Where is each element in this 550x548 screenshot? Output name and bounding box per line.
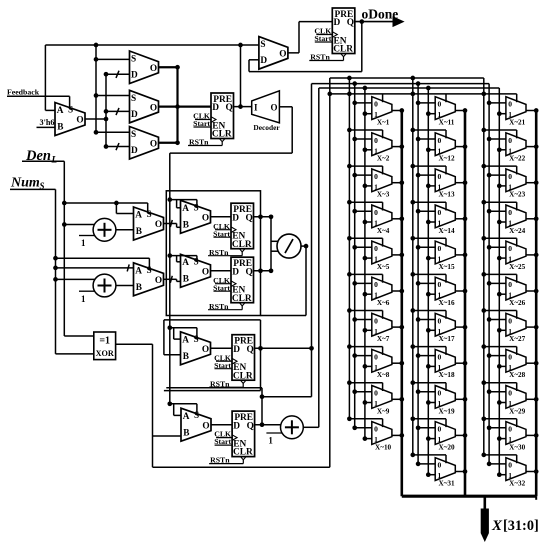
junction (309, 346, 314, 351)
junction (347, 416, 352, 421)
svg-text:X~10: X~10 (375, 443, 392, 451)
svg-text:X~20: X~20 (438, 443, 455, 451)
svg-text:O: O (150, 103, 157, 113)
mux X~23 (506, 169, 526, 199)
junction (260, 422, 265, 427)
svg-text:S: S (194, 203, 199, 213)
svg-text:0: 0 (374, 316, 378, 325)
bus column line b3 (498, 88, 500, 475)
wire X~19 output (455, 398, 465, 400)
svg-text:S: S (260, 40, 265, 50)
svg-text:S: S (147, 210, 152, 220)
junction (94, 130, 99, 135)
junction (363, 400, 368, 405)
junction (359, 19, 364, 24)
wire X~11 input 0 (418, 102, 435, 104)
junction (347, 128, 352, 133)
wire X~26 input 0 (489, 282, 506, 284)
wire X~20 input 1 (428, 438, 435, 440)
junction (167, 401, 172, 406)
junction (416, 137, 421, 142)
junction (363, 184, 368, 189)
mux X~1 (372, 97, 392, 127)
wire X~11 output (455, 110, 465, 112)
junction (534, 180, 539, 185)
module box quotient datapath (166, 191, 260, 316)
svg-text:0: 0 (438, 352, 442, 361)
junction (399, 144, 404, 149)
svg-text:X~14: X~14 (438, 227, 455, 235)
wire D input mux U2 (106, 73, 130, 75)
junction (426, 86, 431, 91)
wire X~18 select (413, 346, 446, 348)
wire X~30 output (526, 434, 536, 436)
wire select rail vertical (95, 45, 97, 132)
junction (497, 364, 502, 369)
svg-text:XOR: XOR (96, 349, 114, 358)
junction (416, 281, 421, 286)
junction (410, 128, 415, 133)
svg-text:0: 0 (508, 136, 512, 145)
junction (352, 281, 357, 286)
junction (327, 92, 332, 97)
junction (352, 317, 357, 322)
svg-text:0: 0 (374, 425, 378, 434)
junction (53, 277, 58, 282)
svg-text:1: 1 (81, 238, 86, 248)
wire U8 O to FF2 D (211, 216, 232, 218)
wire X~4 output (392, 218, 402, 220)
wire X~18 input 1 (428, 365, 435, 367)
wire X~9 input 1 (365, 402, 372, 404)
oDone arrowhead (393, 17, 403, 26)
junction (487, 173, 492, 178)
svg-text:1: 1 (81, 294, 86, 304)
wire Num vertical rail (55, 189, 57, 354)
wire X~27 output (526, 326, 536, 328)
svg-text:X~23: X~23 (509, 191, 526, 199)
wire sec2 select tap1 (170, 199, 197, 201)
junction (363, 111, 368, 116)
svg-text:0: 0 (438, 425, 442, 434)
mux X~28 (506, 349, 526, 379)
junction (347, 272, 352, 277)
wire X~32 input 0 (489, 463, 506, 465)
svg-text:D: D (131, 146, 138, 156)
svg-text:0: 0 (438, 461, 442, 470)
bus tick U9 A (127, 264, 129, 271)
junction (410, 453, 415, 458)
junction (481, 272, 486, 277)
bus run A (330, 77, 484, 79)
wire X~8 input 0 (355, 355, 372, 357)
wire U3 O (159, 105, 178, 107)
junction (258, 268, 263, 273)
wire X~12 input 1 (428, 149, 435, 151)
wire X~21 input 0 (489, 102, 506, 104)
wire X~15 input 0 (418, 246, 435, 248)
junction (363, 436, 368, 441)
junction (347, 200, 352, 205)
junction (426, 184, 431, 189)
svg-text:A: A (182, 335, 189, 345)
svg-text:Q: Q (226, 103, 233, 113)
wire FF1 Q up to select net (240, 45, 242, 107)
mux X~27 (506, 313, 526, 343)
wire X~31 output (455, 471, 465, 473)
wire Num rail (10, 188, 56, 190)
svg-text:X~13: X~13 (438, 191, 455, 199)
svg-text:0: 0 (438, 100, 442, 109)
svg-text:B: B (183, 221, 189, 231)
wire X~24 input 0 (489, 210, 506, 212)
wire X~13 input 0 (418, 174, 435, 176)
mux X~17 (435, 313, 455, 343)
wire Q feedback to U1 A (44, 45, 46, 110)
wire U12 O to FF4 D (211, 347, 233, 349)
wire X~6 input 1 (365, 293, 372, 295)
mux U8 (181, 200, 211, 233)
wire X~16 select (413, 273, 446, 275)
wire FF1 Q to decoder I (234, 106, 252, 108)
svg-text:X~31: X~31 (438, 480, 455, 488)
wire X~23 select (484, 165, 517, 167)
junction (463, 216, 468, 221)
svg-text:O: O (155, 276, 162, 286)
svg-text:0: 0 (508, 244, 512, 253)
wire X~8 select (349, 346, 382, 348)
junction (352, 209, 357, 214)
wire divider numerator stub (271, 240, 279, 242)
svg-text:D: D (233, 345, 240, 355)
svg-text:1: 1 (268, 436, 273, 446)
junction (175, 104, 180, 109)
junction (399, 216, 404, 221)
wire X~16 input 1 (428, 293, 435, 295)
wire X~10 input 0 (355, 427, 372, 429)
wire row2 A input (56, 267, 134, 269)
wire sec2 A branch1 (176, 200, 178, 208)
svg-text:X~27: X~27 (509, 335, 526, 343)
junction (269, 268, 274, 273)
junction (534, 433, 539, 438)
junction (487, 245, 492, 250)
svg-text:X~9: X~9 (377, 407, 390, 415)
junction (481, 128, 486, 133)
junction (497, 147, 502, 152)
svg-text:X: X (491, 518, 503, 534)
mux X~14 (435, 205, 455, 235)
junction (167, 325, 172, 330)
junction (487, 425, 492, 430)
wire X~30 select (484, 418, 517, 420)
junction (463, 433, 468, 438)
junction (426, 111, 431, 116)
svg-text:0: 0 (508, 208, 512, 217)
wire X~26 output (526, 290, 536, 292)
divider U11 (277, 234, 301, 258)
bus run B (312, 83, 490, 85)
junction (410, 308, 415, 313)
svg-text:X~7: X~7 (377, 335, 390, 343)
junction (399, 397, 404, 402)
junction (416, 209, 421, 214)
wire A3 out to rail2 (303, 426, 319, 428)
wire X~2 output (392, 146, 402, 148)
svg-text:0: 0 (508, 172, 512, 181)
wire FF5 Q to adder (255, 424, 281, 426)
junction (497, 328, 502, 333)
svg-text:B: B (136, 227, 142, 237)
wire X~25 select (484, 237, 517, 239)
wire X~16 input 0 (418, 282, 435, 284)
junction (481, 92, 486, 97)
junction (352, 81, 357, 86)
junction (534, 108, 539, 113)
junction (497, 292, 502, 297)
mux X~29 (506, 386, 526, 416)
junction (463, 289, 468, 294)
mux U12 (181, 332, 211, 365)
mux U5 done hold (259, 37, 288, 70)
junction (416, 101, 421, 106)
wire X~5 select (349, 237, 382, 239)
wire X~7 input 0 (355, 319, 372, 321)
mux X~24 (506, 205, 526, 235)
wire X~27 input 1 (499, 329, 506, 331)
wire sec3 B input (164, 354, 181, 356)
wire X~6 output (392, 290, 402, 292)
junction (238, 43, 243, 48)
wire X~27 input 0 (489, 319, 506, 321)
wire sec4 select tap (170, 403, 197, 405)
svg-text:0: 0 (508, 389, 512, 398)
bus end stub (535, 496, 537, 500)
wire FF5 Q to rail1 (262, 396, 312, 398)
decoder U6 (252, 91, 281, 132)
wire X~26 select (484, 273, 517, 275)
svg-text:O: O (202, 421, 209, 431)
wire sec3 select tap (170, 327, 197, 329)
junction (426, 256, 431, 261)
mux X~4 (372, 205, 392, 235)
junction (534, 469, 539, 474)
svg-text:A: A (182, 204, 189, 214)
junction (53, 266, 58, 271)
junction (487, 462, 492, 467)
junction (94, 57, 99, 62)
wire X~30 input 1 (499, 438, 506, 440)
junction (426, 292, 431, 297)
junction (463, 469, 468, 474)
junction (487, 389, 492, 394)
svg-text:0: 0 (374, 100, 378, 109)
wire X~17 input 1 (428, 329, 435, 331)
bus slash U4 D (116, 143, 119, 150)
bus column output (535, 111, 538, 497)
mux U1 feedback select (55, 103, 85, 136)
svg-text:S: S (131, 55, 136, 65)
wire X~9 output (392, 398, 402, 400)
junction (481, 164, 486, 169)
svg-text:O: O (202, 214, 209, 224)
svg-text:O: O (150, 140, 157, 150)
svg-text:S: S (68, 106, 73, 116)
module box sign datapath (164, 320, 261, 391)
svg-text:Q: Q (247, 345, 254, 355)
wire X~7 output (392, 326, 402, 328)
junction (363, 147, 368, 152)
wire main select net (45, 44, 259, 46)
mux X~7 (372, 313, 392, 343)
wire U13 O to FF5 D (211, 424, 232, 426)
flip-flop FF1 (188, 93, 234, 147)
wire X~17 output (455, 326, 465, 328)
svg-text:A: A (183, 412, 190, 422)
wire X~24 output (526, 218, 536, 220)
wire X~17 select (413, 310, 446, 312)
svg-text:D: D (334, 18, 341, 28)
wire X~25 output (526, 254, 536, 256)
svg-text:0: 0 (438, 208, 442, 217)
bus column line b1 (483, 78, 485, 455)
svg-text:X~8: X~8 (377, 371, 390, 379)
wire Den rail (22, 160, 64, 162)
svg-text:I: I (254, 103, 258, 113)
mux X~18 (435, 349, 455, 379)
svg-text:X~25: X~25 (509, 263, 526, 271)
svg-text:B: B (183, 275, 189, 285)
bus column line b1 (348, 78, 350, 419)
wire S input mux U4 (96, 131, 130, 133)
junction (410, 236, 415, 241)
junction (347, 308, 352, 313)
mux X~16 (435, 277, 455, 307)
wire X~29 output (526, 398, 536, 400)
mux X~2 (372, 133, 392, 163)
wire 3'h6 to mux B (37, 126, 56, 128)
wire X~29 input 1 (499, 402, 506, 404)
wire X~23 input 0 (489, 174, 506, 176)
junction (410, 416, 415, 421)
mux X~10 (372, 422, 392, 452)
junction (534, 144, 539, 149)
mux U4 (130, 127, 159, 160)
wire X~25 input 1 (499, 257, 506, 259)
svg-text:0: 0 (508, 425, 512, 434)
bus column output (464, 111, 467, 497)
svg-text:S: S (194, 257, 199, 267)
junction (410, 92, 415, 97)
wire X~30 input 0 (489, 427, 506, 429)
wire U2 O (159, 66, 178, 68)
bus tick U8 B (170, 220, 172, 227)
svg-text:L: L (51, 156, 58, 166)
svg-text:D: D (233, 421, 240, 431)
svg-text:0: 0 (438, 316, 442, 325)
svg-text:Feedback: Feedback (7, 87, 40, 96)
wire D input mux U3 (106, 110, 130, 112)
adder A2 (79, 274, 116, 304)
svg-text:X~15: X~15 (438, 263, 455, 271)
svg-text:O: O (202, 268, 209, 278)
bus rail2 (318, 88, 320, 427)
svg-text:X~28: X~28 (509, 371, 526, 379)
svg-text:X~16: X~16 (438, 299, 455, 307)
svg-text:0: 0 (374, 136, 378, 145)
svg-text:O: O (155, 220, 162, 230)
junction (363, 364, 368, 369)
mux X~11 (435, 97, 455, 127)
svg-text:Q: Q (247, 421, 254, 431)
flip-flop FF0 done (309, 8, 355, 62)
junction (463, 144, 468, 149)
wire X~27 select (484, 310, 517, 312)
wire data rail vertical (105, 74, 107, 146)
mux U10 (181, 254, 211, 287)
wire X~8 output (392, 362, 402, 364)
svg-text:D: D (260, 56, 267, 66)
wire U7 O to U8 B (164, 223, 177, 225)
junction (497, 400, 502, 405)
svg-text:X~24: X~24 (509, 227, 526, 235)
wire X~15 output (455, 254, 465, 256)
wire X~13 input 1 (428, 185, 435, 187)
wire X~9 select (349, 382, 382, 384)
junction (347, 380, 352, 385)
mux X~21 (506, 97, 526, 127)
wire X~12 output (455, 146, 465, 148)
junction (463, 253, 468, 258)
wire X~14 select (413, 201, 446, 203)
wire X~22 output (526, 146, 536, 148)
junction (167, 253, 172, 258)
wire X~3 input 1 (365, 185, 372, 187)
wire U4 O (159, 142, 178, 144)
svg-text:Q: Q (246, 213, 253, 223)
junction (399, 108, 404, 113)
wire X~8 input 1 (365, 365, 372, 367)
svg-text:B: B (136, 283, 142, 293)
junction (487, 209, 492, 214)
mux X~20 (435, 422, 455, 452)
wire Feedback to mux S (7, 95, 70, 97)
svg-text:D: D (232, 267, 239, 277)
wire X~17 input 0 (418, 319, 435, 321)
junction (258, 346, 263, 351)
junction (352, 173, 357, 178)
wire X~31 select (413, 454, 446, 456)
junction (534, 253, 539, 258)
junction (94, 93, 99, 98)
wire decoder O down-left select rail (279, 106, 292, 108)
wire divider output (301, 245, 306, 247)
mux U7 row1 (134, 207, 164, 240)
wire X~19 input 1 (428, 402, 435, 404)
svg-text:X~30: X~30 (509, 443, 526, 451)
wire X~11 select (445, 94, 447, 102)
wire X~22 input 1 (499, 149, 506, 151)
wire Den vertical rail (63, 161, 65, 336)
mux X~12 (435, 133, 455, 163)
bus column line b2 (488, 84, 490, 464)
wire U5 O to FF0 D (288, 52, 299, 54)
junction (410, 344, 415, 349)
mux X~22 (506, 133, 526, 163)
junction (481, 236, 486, 241)
svg-text:B: B (57, 123, 63, 133)
svg-text:0: 0 (438, 244, 442, 253)
